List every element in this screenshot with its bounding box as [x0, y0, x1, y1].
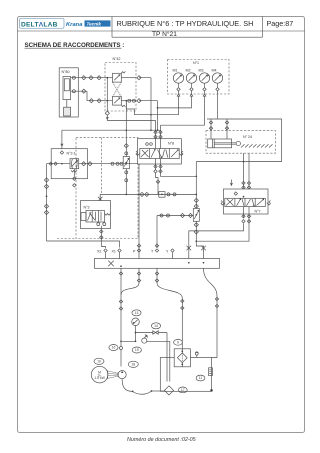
directional valve N°7 box [224, 189, 269, 214]
label 16 [109, 345, 118, 351]
label 17 [178, 387, 187, 393]
wire return filter column [181, 298, 184, 349]
wire below manifold T column hose [155, 268, 182, 298]
svg-text:Page:87: Page:87 [267, 19, 294, 28]
header table row separator [18, 30, 305, 32]
wire gauge M1 staircase [151, 97, 179, 115]
svg-text:N°42: N°42 [113, 57, 121, 61]
svg-text:M2: M2 [186, 69, 191, 73]
svg-text:X1: X1 [112, 250, 116, 254]
flow control valve (return riser) [193, 162, 203, 259]
directional valve N°7 body [221, 198, 271, 206]
wire P column up [138, 164, 140, 243]
ball valve item 19 [142, 335, 170, 344]
wire N°42 upper row to riser [137, 76, 151, 131]
wire gauge M4 down to N°24 feed [217, 91, 219, 119]
svg-text:Numéro de document :02-05: Numéro de document :02-05 [127, 437, 197, 443]
accumulator N°80 weight [64, 107, 71, 116]
header TP row cell [112, 31, 263, 37]
wire feed N°24 ports [207, 119, 282, 162]
wire feed to N°2-1 with arrow [61, 130, 63, 149]
svg-text:11: 11 [199, 376, 203, 380]
coupler under M2 [190, 91, 193, 96]
wire ball valve to tank [169, 341, 171, 381]
svg-text:16: 16 [112, 346, 116, 350]
svg-text:1.5 kW: 1.5 kW [94, 376, 105, 380]
plug X above N°3 [98, 197, 103, 202]
svg-text:M3: M3 [199, 69, 204, 73]
pressure gauge M2 [186, 69, 197, 92]
svg-text:M4: M4 [212, 69, 217, 73]
drain plug [210, 389, 212, 391]
svg-text:RUBRIQUE N°6 : TP HYDRAULIQUE: RUBRIQUE N°6 : TP HYDRAULIQUE. SH [117, 19, 254, 28]
plug X on manifold port [187, 246, 192, 251]
level gauge [209, 368, 213, 376]
wire N°42 lower row to riser [137, 99, 158, 131]
pilot lines N°42 cross [113, 82, 122, 96]
svg-text:X2: X2 [97, 250, 101, 254]
svg-text:17: 17 [181, 388, 185, 392]
svg-text:Tecnik: Tecnik [87, 21, 102, 26]
svg-text:19: 19 [135, 348, 139, 352]
pilot ports N°8 [146, 143, 153, 146]
pressure gauge M3 [199, 69, 210, 92]
label 19 [132, 347, 141, 353]
relief valve 1 (upper) [103, 71, 136, 82]
wire main distribution line y=130 [62, 129, 161, 131]
plug X on manifold port 2 [201, 246, 206, 251]
svg-text:N° 24: N° 24 [243, 135, 252, 139]
label 18 [128, 361, 138, 367]
accumulator unit N°80 box [59, 68, 78, 117]
gauge panel N°1 dashed box [168, 60, 230, 95]
label 14 [151, 323, 160, 329]
wire below manifold X1 column [119, 268, 122, 294]
solenoid valve N°3 body [81, 211, 111, 223]
check valve block on pressure line [159, 192, 176, 198]
wire staircase from N°42 row to riser [125, 100, 151, 115]
wire N°7 A-port elbow to manifold [189, 224, 244, 259]
label 9 [174, 339, 183, 345]
pressure gauge M1 [173, 69, 184, 92]
wire below manifold P column hose [121, 268, 141, 295]
couplers below N°2-1 [73, 169, 76, 187]
coupler under M1 [177, 91, 180, 96]
svg-text:Krana: Krana [66, 22, 83, 28]
lever arrow above N°7 [230, 180, 232, 186]
label 13 [132, 310, 141, 316]
wire tank line elbow to manifold T [156, 216, 158, 249]
wire N°24 to N°7 columns [196, 153, 281, 189]
pressure gauge M4 [212, 69, 223, 92]
svg-text:TP N°21: TP N°21 [152, 30, 177, 38]
wire left branch to manifold X1 [47, 241, 120, 248]
relief valve 2 (lower) [113, 96, 137, 107]
return filter box [174, 349, 190, 367]
svg-text:18: 18 [131, 363, 135, 367]
manifold port P [133, 243, 141, 259]
directional valve N°8 box [138, 139, 182, 164]
wire N°42 internal riser with junctions [106, 77, 108, 111]
wire into N°8 top [154, 120, 162, 148]
svg-text:9: 9 [177, 341, 179, 345]
tank [160, 358, 211, 392]
pilot diamond N°7 [234, 192, 244, 198]
couplers below N°8 [154, 159, 162, 175]
label 11 [196, 375, 205, 381]
coupler under M3 [203, 91, 206, 96]
pressure gauge pump [132, 318, 140, 333]
wire pressure line y=194 [100, 192, 196, 196]
couplers below N°7 [242, 207, 251, 224]
hydraulic cylinder N°24 [208, 139, 241, 148]
header column separator logo|title [111, 17, 113, 32]
coupling motor-pump [108, 371, 118, 379]
manifold internal plug cross [108, 261, 114, 267]
wire gauge M2 to riser [158, 97, 192, 108]
svg-text:M1: M1 [173, 69, 178, 73]
hydraulic pump [118, 371, 126, 379]
dashed group enclosure center [76, 138, 138, 239]
label 10 [94, 358, 104, 364]
cylinder unit N°24 dashed box [206, 131, 276, 154]
junction M1 line on riser [150, 114, 152, 116]
svg-text:10: 10 [97, 360, 101, 364]
manifold port Y [166, 249, 174, 259]
directional valve N°8 body [136, 149, 183, 159]
diamond and flow arrow below N°42 [105, 111, 155, 120]
svg-text:N°3: N°3 [84, 206, 90, 210]
svg-text:13: 13 [135, 311, 139, 315]
svg-text:N°7: N°7 [255, 210, 261, 214]
shutoff valve (bowtie) [153, 331, 167, 334]
electric motor M [91, 366, 108, 383]
wire N°80 upper output row [71, 76, 103, 80]
wire into N°3 top [97, 194, 106, 210]
manifold port X2 [97, 249, 107, 259]
DELTALAB logo box [20, 18, 65, 28]
svg-text:N°1: N°1 [193, 61, 199, 65]
suction strainer [164, 386, 173, 395]
wire N°2-1 row right to flow control [79, 162, 140, 166]
solenoid valve N°3 box [81, 201, 111, 229]
pump suction hose [122, 379, 164, 395]
flow control valve vertical (center) [123, 101, 129, 194]
wire valve to tank [166, 333, 168, 382]
junction M2 line on riser [157, 107, 159, 109]
throttle valve N°2-1 body [70, 159, 79, 172]
wire tank line y=215.5 [157, 213, 193, 217]
svg-text:14: 14 [154, 324, 158, 328]
dashed inner partition [100, 138, 102, 195]
manifold junction dots [120, 262, 204, 267]
manifold port T [151, 244, 159, 254]
wire N°2-1 row left [47, 162, 71, 165]
Tecnik logo block [85, 20, 111, 26]
wire pump suction column [119, 294, 122, 367]
wire N°80 lower output row [71, 89, 113, 103]
wire gauge M3 to N°8 [161, 97, 205, 126]
load hatching N°24 [241, 144, 273, 147]
junction on return riser [195, 175, 197, 177]
wire N°3 to manifold X2 [101, 247, 105, 249]
header column separator title|page [262, 17, 264, 32]
manifold block [94, 259, 219, 269]
wire N°8 port B to return riser [161, 174, 197, 176]
manifold port X1 [112, 249, 122, 259]
svg-text:N°8: N°8 [168, 142, 174, 146]
wire N°7 B-port elbow to manifold [196, 224, 249, 242]
wire N°8 port A down to pressure line [156, 173, 160, 194]
wire gauge branch [121, 332, 153, 343]
accumulator N°80 body [63, 77, 71, 108]
svg-text:N°2-1: N°2-1 [67, 151, 76, 155]
couplers below N°3 [97, 223, 106, 247]
throttle valve unit N°2-1 box [51, 149, 87, 179]
relief valve group N°42 dashed box [105, 57, 136, 111]
svg-text:DELTΛLAB: DELTΛLAB [21, 21, 58, 28]
svg-text:N°80: N°80 [62, 70, 70, 74]
wire below manifold right hose to tank [204, 268, 219, 357]
breather [195, 352, 198, 358]
wire left branch column [44, 164, 48, 241]
